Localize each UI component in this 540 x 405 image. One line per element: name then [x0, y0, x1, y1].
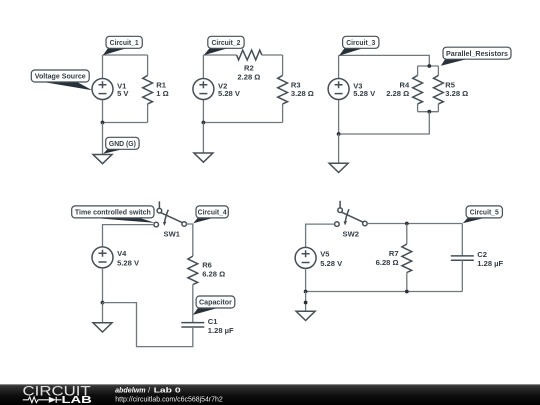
junction circuit 5 bottom R7 — [405, 290, 409, 294]
resistor R1 — [143, 75, 169, 104]
capacitor C1 — [181, 317, 234, 335]
svg-text:R6: R6 — [202, 260, 212, 269]
svg-text:V5: V5 — [320, 249, 330, 258]
junction parallel top node — [427, 64, 431, 68]
ground G3 — [329, 163, 348, 172]
wire V1 top lead — [102, 55, 104, 79]
svg-text:1.28 µF: 1.28 µF — [208, 326, 234, 335]
CircuitLab logo wire with resistor and diode — [23, 397, 49, 403]
label flag GND (G) ground label — [103, 137, 139, 154]
node circuit 5 ground net — [304, 301, 308, 305]
svg-text:SW1: SW1 — [164, 229, 181, 238]
label flag Parallel_Resistors — [441, 47, 511, 66]
wire R6 to C1 — [192, 285, 194, 323]
voltage source V3 — [328, 79, 376, 100]
wire parallel bottom rail — [418, 111, 439, 113]
svg-text:Lab 0: Lab 0 — [154, 385, 181, 394]
junction parallel bottom node — [427, 110, 431, 114]
wire circuit 3 right drop — [339, 112, 430, 134]
svg-text:3.28 Ω: 3.28 Ω — [445, 89, 468, 98]
wire R3 top lead — [282, 55, 284, 75]
svg-text:5.28 V: 5.28 V — [320, 259, 343, 268]
wire top rail circuit 3 — [339, 55, 430, 66]
resistor R2 — [237, 50, 262, 81]
voltage source V5 — [295, 247, 343, 268]
svg-text:5 V: 5 V — [117, 89, 129, 98]
resistor R7 — [376, 244, 412, 273]
wire to ground G4 — [102, 303, 104, 323]
svg-text:Circuit_5: Circuit_5 — [470, 208, 500, 217]
svg-text:2.28 Ω: 2.28 Ω — [386, 89, 409, 98]
label flag Circuit_2 — [204, 36, 244, 55]
wire R7 top lead — [406, 224, 408, 245]
resistor R4 — [386, 75, 422, 104]
label flag Capacitor — [193, 296, 235, 315]
junction circuit 1 bottom node — [101, 121, 105, 125]
label flag Circuit_5 — [463, 206, 503, 223]
svg-text:5.28 V: 5.28 V — [218, 89, 241, 98]
svg-text:6.28 Ω: 6.28 Ω — [376, 258, 399, 267]
wire bottom rail circuit 2 — [203, 122, 282, 124]
wire C2 bottom lead — [461, 260, 463, 291]
wire R4 top lead — [417, 66, 419, 75]
wire V3 bottom lead — [338, 99, 340, 134]
resistor R5 — [434, 75, 469, 104]
svg-text:5.28 V: 5.28 V — [117, 259, 140, 268]
wire R1 bottom lead — [147, 104, 149, 123]
wire to ground G1 — [102, 123, 104, 155]
node Circuit_1 top rail — [103, 54, 148, 56]
svg-text:R7: R7 — [389, 249, 399, 258]
wire bottom rail circuit 1 — [103, 122, 148, 124]
junction circuit 3 bottom node — [337, 132, 341, 136]
wire V2 top lead — [202, 55, 204, 79]
svg-text:Circuit_4: Circuit_4 — [198, 208, 228, 217]
svg-text:Circuit_1: Circuit_1 — [110, 38, 140, 47]
ground G5 — [296, 311, 315, 320]
capacitor C2 — [451, 250, 504, 268]
svg-text:LAB: LAB — [62, 395, 92, 405]
label flag Circuit_1 — [103, 36, 142, 55]
svg-text:C2: C2 — [477, 250, 487, 259]
wire bottom rail circuit 5 — [306, 291, 463, 293]
ground G1 — [93, 155, 112, 164]
wire V4 bottom lead — [102, 268, 104, 303]
svg-text:Capacitor: Capacitor — [199, 298, 232, 307]
svg-text:Circuit_3: Circuit_3 — [346, 38, 375, 47]
wire V2 bottom lead — [202, 99, 204, 122]
svg-text:6.28 Ω: 6.28 Ω — [202, 269, 225, 278]
svg-text:1.28 µF: 1.28 µF — [477, 259, 503, 268]
wire R5 bottom lead — [437, 104, 439, 112]
wire to ground G5 — [305, 292, 307, 312]
wire to ground G3 — [338, 134, 340, 163]
svg-text:2.28 Ω: 2.28 Ω — [237, 72, 260, 81]
label flag Circuit_3 — [339, 36, 379, 55]
wire R1 top lead — [147, 55, 149, 75]
wire C1 bottom return — [103, 303, 193, 347]
wire top rail circuit 2 left segment — [203, 54, 236, 56]
junction circuit 5 bottom left — [304, 290, 308, 294]
svg-text:5.28 V: 5.28 V — [353, 89, 376, 98]
svg-text:3.28 Ω: 3.28 Ω — [291, 89, 314, 98]
wire V5 bottom lead — [305, 268, 307, 291]
label flag Time controlled switch — [72, 206, 156, 223]
wire SW2 right along top rail — [367, 223, 462, 225]
svg-text:Circuit_2: Circuit_2 — [211, 38, 240, 47]
label flag Voltage Source — [31, 70, 92, 90]
voltage source V2 — [193, 79, 241, 100]
footer bar — [0, 384, 540, 405]
svg-text:Voltage Source: Voltage Source — [35, 72, 86, 81]
svg-text:SW2: SW2 — [343, 229, 359, 238]
svg-text:Time controlled switch: Time controlled switch — [75, 208, 151, 217]
wire R3 bottom lead — [282, 104, 284, 123]
switch SW1 — [154, 201, 187, 238]
wire R4 bottom lead — [417, 104, 419, 112]
wire V1 bottom lead — [102, 99, 104, 122]
wire SW2 left to V5 — [306, 224, 335, 247]
wire to ground G2 — [202, 123, 204, 154]
wire SW1 right to R6 branch corner — [187, 224, 193, 256]
switch SW2 — [335, 201, 368, 239]
wire R5 top lead — [437, 66, 439, 75]
junction circuit 2 bottom node — [202, 121, 206, 125]
junction circuit 5 top node — [405, 222, 409, 226]
svg-text:Parallel_Resistors: Parallel_Resistors — [446, 49, 508, 58]
resistor R6 — [188, 256, 225, 285]
ground G4 — [93, 323, 112, 332]
wire V3 top lead — [338, 55, 340, 78]
junction circuit 4 bottom node — [101, 301, 105, 305]
wire SW1 left to V4 — [103, 225, 154, 247]
wire parallel top rail — [418, 65, 439, 67]
wire R7 bottom lead — [406, 273, 408, 292]
wire C2 top lead — [461, 224, 463, 256]
svg-text:GND (G): GND (G) — [109, 139, 136, 148]
svg-text:C1: C1 — [208, 317, 218, 326]
svg-text:V4: V4 — [117, 249, 127, 258]
ground G2 — [194, 153, 213, 162]
label flag Circuit_4 — [193, 206, 228, 223]
wire top rail circuit 2 right segment — [262, 54, 283, 56]
resistor R3 — [278, 75, 314, 104]
voltage source V4 — [92, 247, 140, 268]
voltage source V1 — [92, 79, 129, 100]
svg-text:abdelwm: abdelwm — [115, 385, 146, 394]
svg-text:http://circuitlab.com/c6c568j5: http://circuitlab.com/c6c568j54r7h2 — [115, 394, 223, 403]
svg-text:1 Ω: 1 Ω — [156, 89, 168, 98]
svg-text:R2: R2 — [244, 63, 254, 72]
